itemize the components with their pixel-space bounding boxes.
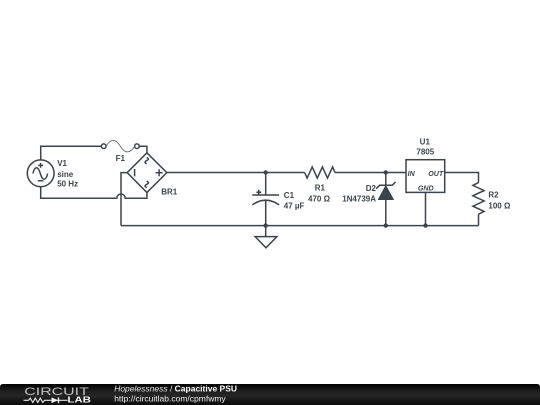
wire bridge left corner down to bottom rail (121, 173, 127, 226)
zener diode D2 (342, 173, 395, 226)
svg-text:Hopelessness / Capacitive PSU: Hopelessness / Capacitive PSU (114, 383, 237, 393)
svg-text:C1: C1 (284, 191, 295, 200)
svg-text:7805: 7805 (416, 148, 434, 157)
wire U1 GND to bottom rail (425, 192, 427, 225)
svg-text:BR1: BR1 (161, 188, 178, 197)
svg-text:GND: GND (418, 185, 434, 193)
bridge rectifier BR1 (127, 153, 178, 197)
node U1 GND junction (423, 223, 427, 227)
wire bottom rail (121, 225, 479, 227)
footer bar (0, 384, 540, 405)
svg-text:47 µF: 47 µF (284, 202, 305, 211)
CircuitLab logo wordmark (24, 386, 92, 404)
svg-text:OUT: OUT (428, 170, 444, 178)
capacitor C1 (252, 173, 304, 226)
voltage source V1 (27, 159, 78, 188)
resistor R2 (473, 183, 511, 215)
node D2 bottom junction (384, 223, 388, 227)
svg-text:LAB: LAB (67, 396, 91, 405)
svg-text:R2: R2 (488, 191, 499, 200)
svg-text:F1: F1 (116, 154, 126, 163)
regulator U1 7805 (406, 138, 445, 193)
svg-text:50 Hz: 50 Hz (57, 180, 78, 189)
wire V1 bottom to bridge bottom corner (with hop over vertical wire) (41, 187, 147, 199)
wire R1 to U1 IN (335, 172, 406, 174)
svg-text:http://circuitlab.com/cpmfwmy: http://circuitlab.com/cpmfwmy (114, 394, 226, 404)
svg-text:sine: sine (57, 170, 74, 179)
svg-text:100 Ω: 100 Ω (488, 201, 511, 210)
resistor R1 (305, 167, 335, 203)
svg-text:D2: D2 (366, 184, 377, 193)
node C1 bottom junction (264, 223, 268, 227)
svg-text:V1: V1 (57, 159, 67, 168)
svg-text:IN: IN (408, 170, 416, 178)
fuse F1 (101, 140, 139, 162)
wire bridge right corner to R1 (167, 172, 305, 174)
wire fuse to bridge top corner (139, 146, 147, 153)
node D2 top junction (384, 170, 388, 174)
svg-text:U1: U1 (420, 138, 431, 147)
svg-text:1N4739A: 1N4739A (342, 194, 376, 203)
svg-text:470 Ω: 470 Ω (308, 194, 331, 203)
ground (255, 226, 277, 248)
wire R2 bottom to rail (478, 214, 480, 225)
node C1 top junction (264, 170, 268, 174)
wire U1 OUT to R2 top (445, 173, 479, 183)
svg-text:R1: R1 (315, 183, 326, 192)
footer title text (114, 383, 237, 403)
wire V1 top to fuse F1 (41, 146, 102, 160)
